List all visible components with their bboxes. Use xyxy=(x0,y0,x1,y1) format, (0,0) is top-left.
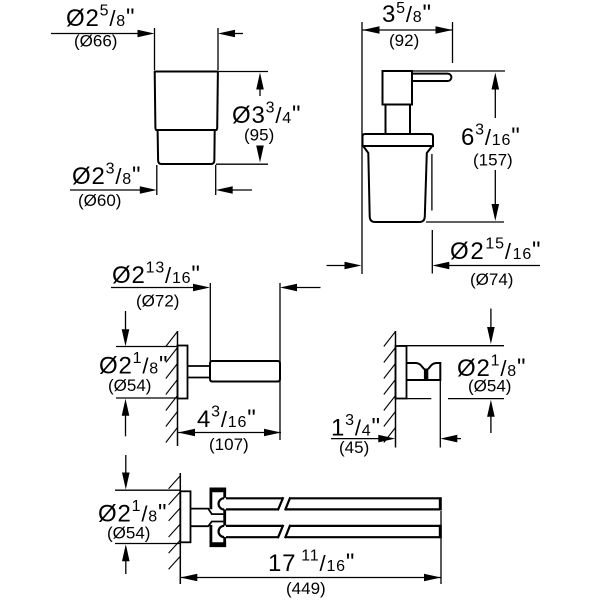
holder diameter dimension Ø2 13/16 (Ø72) xyxy=(111,260,321,441)
tumbler height dimension Ø3 3/4 (95) xyxy=(216,72,301,165)
towel bar length dimension 17 11/16 (449) xyxy=(180,511,441,598)
hook flange and hook body xyxy=(396,346,441,448)
svg-text:35/8": 35/8" xyxy=(382,0,432,28)
towel bar lower bar with break xyxy=(226,525,441,538)
holder diameter dimension Ø2 1/8 (Ø54) left side xyxy=(99,311,177,436)
svg-text:(Ø54): (Ø54) xyxy=(107,524,150,543)
svg-text:(95): (95) xyxy=(244,126,274,145)
svg-text:(449): (449) xyxy=(286,579,326,598)
svg-text:43/16": 43/16" xyxy=(197,404,257,434)
dispenser width dimension 3 5/8 (92) xyxy=(362,0,453,274)
soap dispenser pump head xyxy=(383,71,452,134)
svg-text:(Ø54): (Ø54) xyxy=(108,376,151,395)
towel bar flange and stem xyxy=(180,491,223,542)
dispenser height dimension 6 3/16 (157) xyxy=(412,71,521,222)
svg-text:(92): (92) xyxy=(389,31,419,50)
hook wall with hatching xyxy=(384,331,396,448)
towel bar upper bar with break xyxy=(226,497,441,510)
towel bar wall with hatching xyxy=(169,473,181,584)
svg-text:(Ø74): (Ø74) xyxy=(470,270,513,289)
dispenser diameter dimension Ø2 15/16 (Ø74) xyxy=(327,154,542,289)
towel bar post xyxy=(210,488,227,547)
svg-text:(45): (45) xyxy=(339,438,369,457)
holder length dimension 4 3/16 (107) xyxy=(178,404,281,455)
svg-text:(Ø72): (Ø72) xyxy=(136,292,179,311)
hook depth dimension 1 3/4 (45) xyxy=(331,412,461,457)
towel bar diameter dimension Ø2 1/8 (Ø54) xyxy=(98,455,181,574)
hook diameter dimension Ø2 1/8 (Ø54) xyxy=(399,309,526,434)
tumbler bottom diameter dimension Ø2 3/8 (Ø60) xyxy=(70,161,252,211)
svg-text:(Ø60): (Ø60) xyxy=(78,191,121,210)
tumbler glass outline xyxy=(154,72,219,165)
svg-text:(Ø54): (Ø54) xyxy=(468,377,511,396)
holder flange, stem and rod xyxy=(178,346,281,399)
tumbler top diameter dimension Ø2 5/8 (Ø66) xyxy=(51,3,243,71)
svg-text:63/16": 63/16" xyxy=(461,122,521,152)
soap dispenser collar and bottle xyxy=(363,134,434,222)
svg-text:(Ø66): (Ø66) xyxy=(74,32,117,51)
svg-text:(157): (157) xyxy=(473,151,513,170)
holder wall with hatching xyxy=(166,331,178,446)
svg-text:(107): (107) xyxy=(209,435,249,454)
